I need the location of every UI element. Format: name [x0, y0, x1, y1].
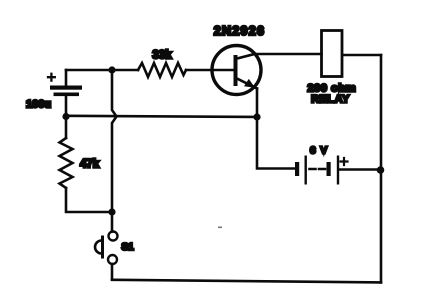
switch S1 pushbutton [95, 232, 118, 265]
resistor R2 47k top lead [65, 117, 68, 139]
capacitor C1 top lead [65, 70, 68, 85]
wire mid horizontal cap to emitter junction [66, 116, 257, 117]
wire 47k bottom to junction [66, 188, 112, 212]
svg-text:47k: 47k [80, 159, 100, 171]
wire collector to relay [255, 53, 322, 56]
resistor R1 33k zigzag [138, 63, 186, 77]
wire top rail from capacitor to resistor [66, 69, 138, 72]
junction node at emitter/battery [253, 113, 260, 120]
battery B1 plates [295, 156, 339, 185]
svg-text:RELAY: RELAY [311, 94, 350, 106]
relay K1 coil [322, 31, 343, 77]
wire mid vertical with crossover jog [112, 70, 117, 212]
capacitor C1 plates [50, 86, 82, 97]
wire battery to right rail junction [339, 168, 381, 171]
junction node above switch [108, 208, 115, 215]
svg-text:2N2926: 2N2926 [214, 24, 266, 38]
transistor Q1 2N2926 [212, 46, 261, 95]
svg-text:6 V: 6 V [310, 145, 328, 157]
wire right rail [380, 55, 383, 282]
wire bottom rail [112, 280, 381, 283]
wire switch bottom to bottom rail [111, 264, 114, 280]
battery B1 left wire [257, 117, 295, 169]
wire resistor to transistor base [186, 69, 234, 72]
polarity plus sign of C1 [48, 74, 55, 81]
junction node at capacitor bottom [62, 113, 69, 120]
resistor R2 47k zigzag [60, 138, 73, 188]
stray scan speck [218, 227, 222, 229]
junction node battery right [377, 166, 385, 174]
wire emitter down to junction [256, 89, 259, 118]
svg-text:33k: 33k [152, 50, 172, 62]
svg-text:100u: 100u [26, 99, 51, 111]
battery B1 internal dashes [310, 168, 326, 171]
battery plus sign [341, 158, 348, 165]
capacitor C1 bottom lead [65, 96, 68, 117]
wire junction to switch top [111, 212, 114, 232]
wire relay to right rail [343, 54, 382, 57]
junction node A top rail [108, 66, 115, 73]
svg-text:S1: S1 [122, 242, 135, 253]
